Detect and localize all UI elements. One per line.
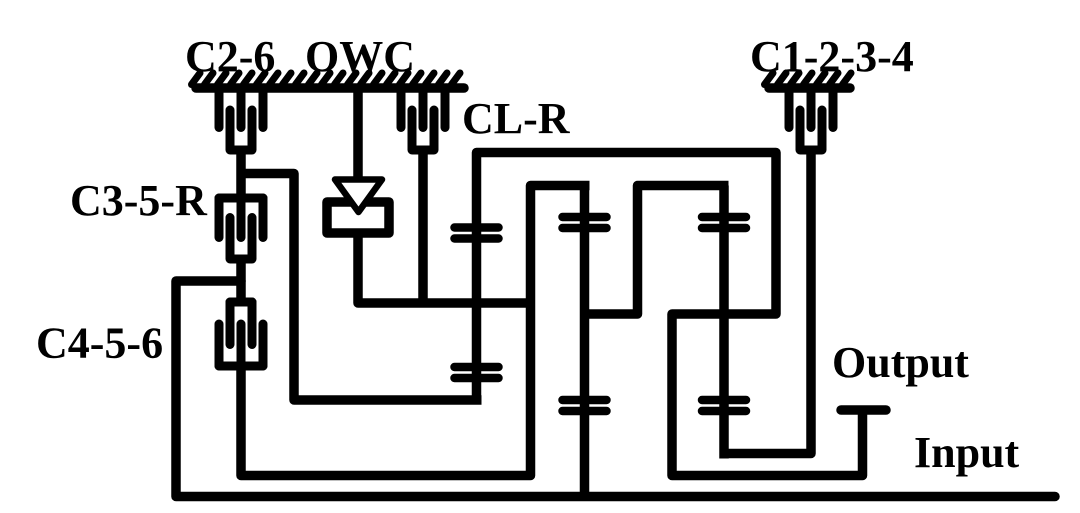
- wire shaft v723 down to elbow: [719, 186, 729, 459]
- one-way clutch OWC: stem from housing: [353, 92, 363, 182]
- svg-text:C4-5-6: C4-5-6: [36, 319, 163, 368]
- wire shaft v584 down to bottom line: [580, 186, 590, 497]
- wire link v584 to v639 bridge over to v723: [585, 186, 729, 315]
- gear mesh pair: ring-pinion upper left: [455, 228, 499, 239]
- clutch C3-5-R: [219, 198, 263, 259]
- svg-text:C3-5-R: C3-5-R: [70, 176, 208, 225]
- brake C2-6: [219, 90, 263, 150]
- gear mesh pair: lower right: [702, 400, 746, 411]
- gear mesh pair: upper middle: [563, 217, 607, 228]
- wire branch C2-6 stem to ring shaft v291 down to carrier rail: [241, 174, 482, 401]
- brake C1-2-3-4: [789, 90, 833, 150]
- wire C1-2-3-4 stem down and elbow left: [724, 150, 811, 454]
- svg-text:Output: Output: [832, 338, 969, 387]
- wire C4-5-6 stem down, right, up to bridge over to v584: [241, 186, 590, 476]
- gear mesh pair: upper right: [702, 217, 746, 228]
- wire OWC lower stem and link to shaft v533: [358, 233, 531, 303]
- wire C2-6 cup stem down: [236, 150, 246, 198]
- clutch C4-5-6: [219, 302, 263, 366]
- wire left shaft: junction down and bottom input line: [176, 281, 1055, 497]
- gear mesh pair: lower left: [455, 367, 499, 378]
- svg-text:C2-6: C2-6: [185, 32, 275, 81]
- ground housing bar left: [196, 83, 464, 93]
- ground housing bar right: [769, 83, 850, 93]
- svg-text:CL-R: CL-R: [462, 94, 571, 143]
- gear mesh pair: lower middle: [563, 400, 607, 411]
- svg-text:Input: Input: [914, 428, 1020, 477]
- ground hatching left: [192, 73, 461, 85]
- ground hatching right: [765, 73, 852, 85]
- brake CL-R: [401, 90, 445, 150]
- OWC race box: [327, 202, 389, 233]
- output tee bar: [841, 405, 886, 415]
- wire ring shaft v476 up across top, down v776, link to v671, down to input tee: [477, 153, 863, 476]
- svg-text:OWC: OWC: [305, 32, 415, 81]
- wire CL-R cup stem down to sun link: [418, 150, 428, 303]
- wire C3-5-R cup stem down: [236, 259, 246, 303]
- svg-text:C1-2-3-4: C1-2-3-4: [750, 32, 914, 81]
- OWC arrow (sprag): [335, 180, 382, 213]
